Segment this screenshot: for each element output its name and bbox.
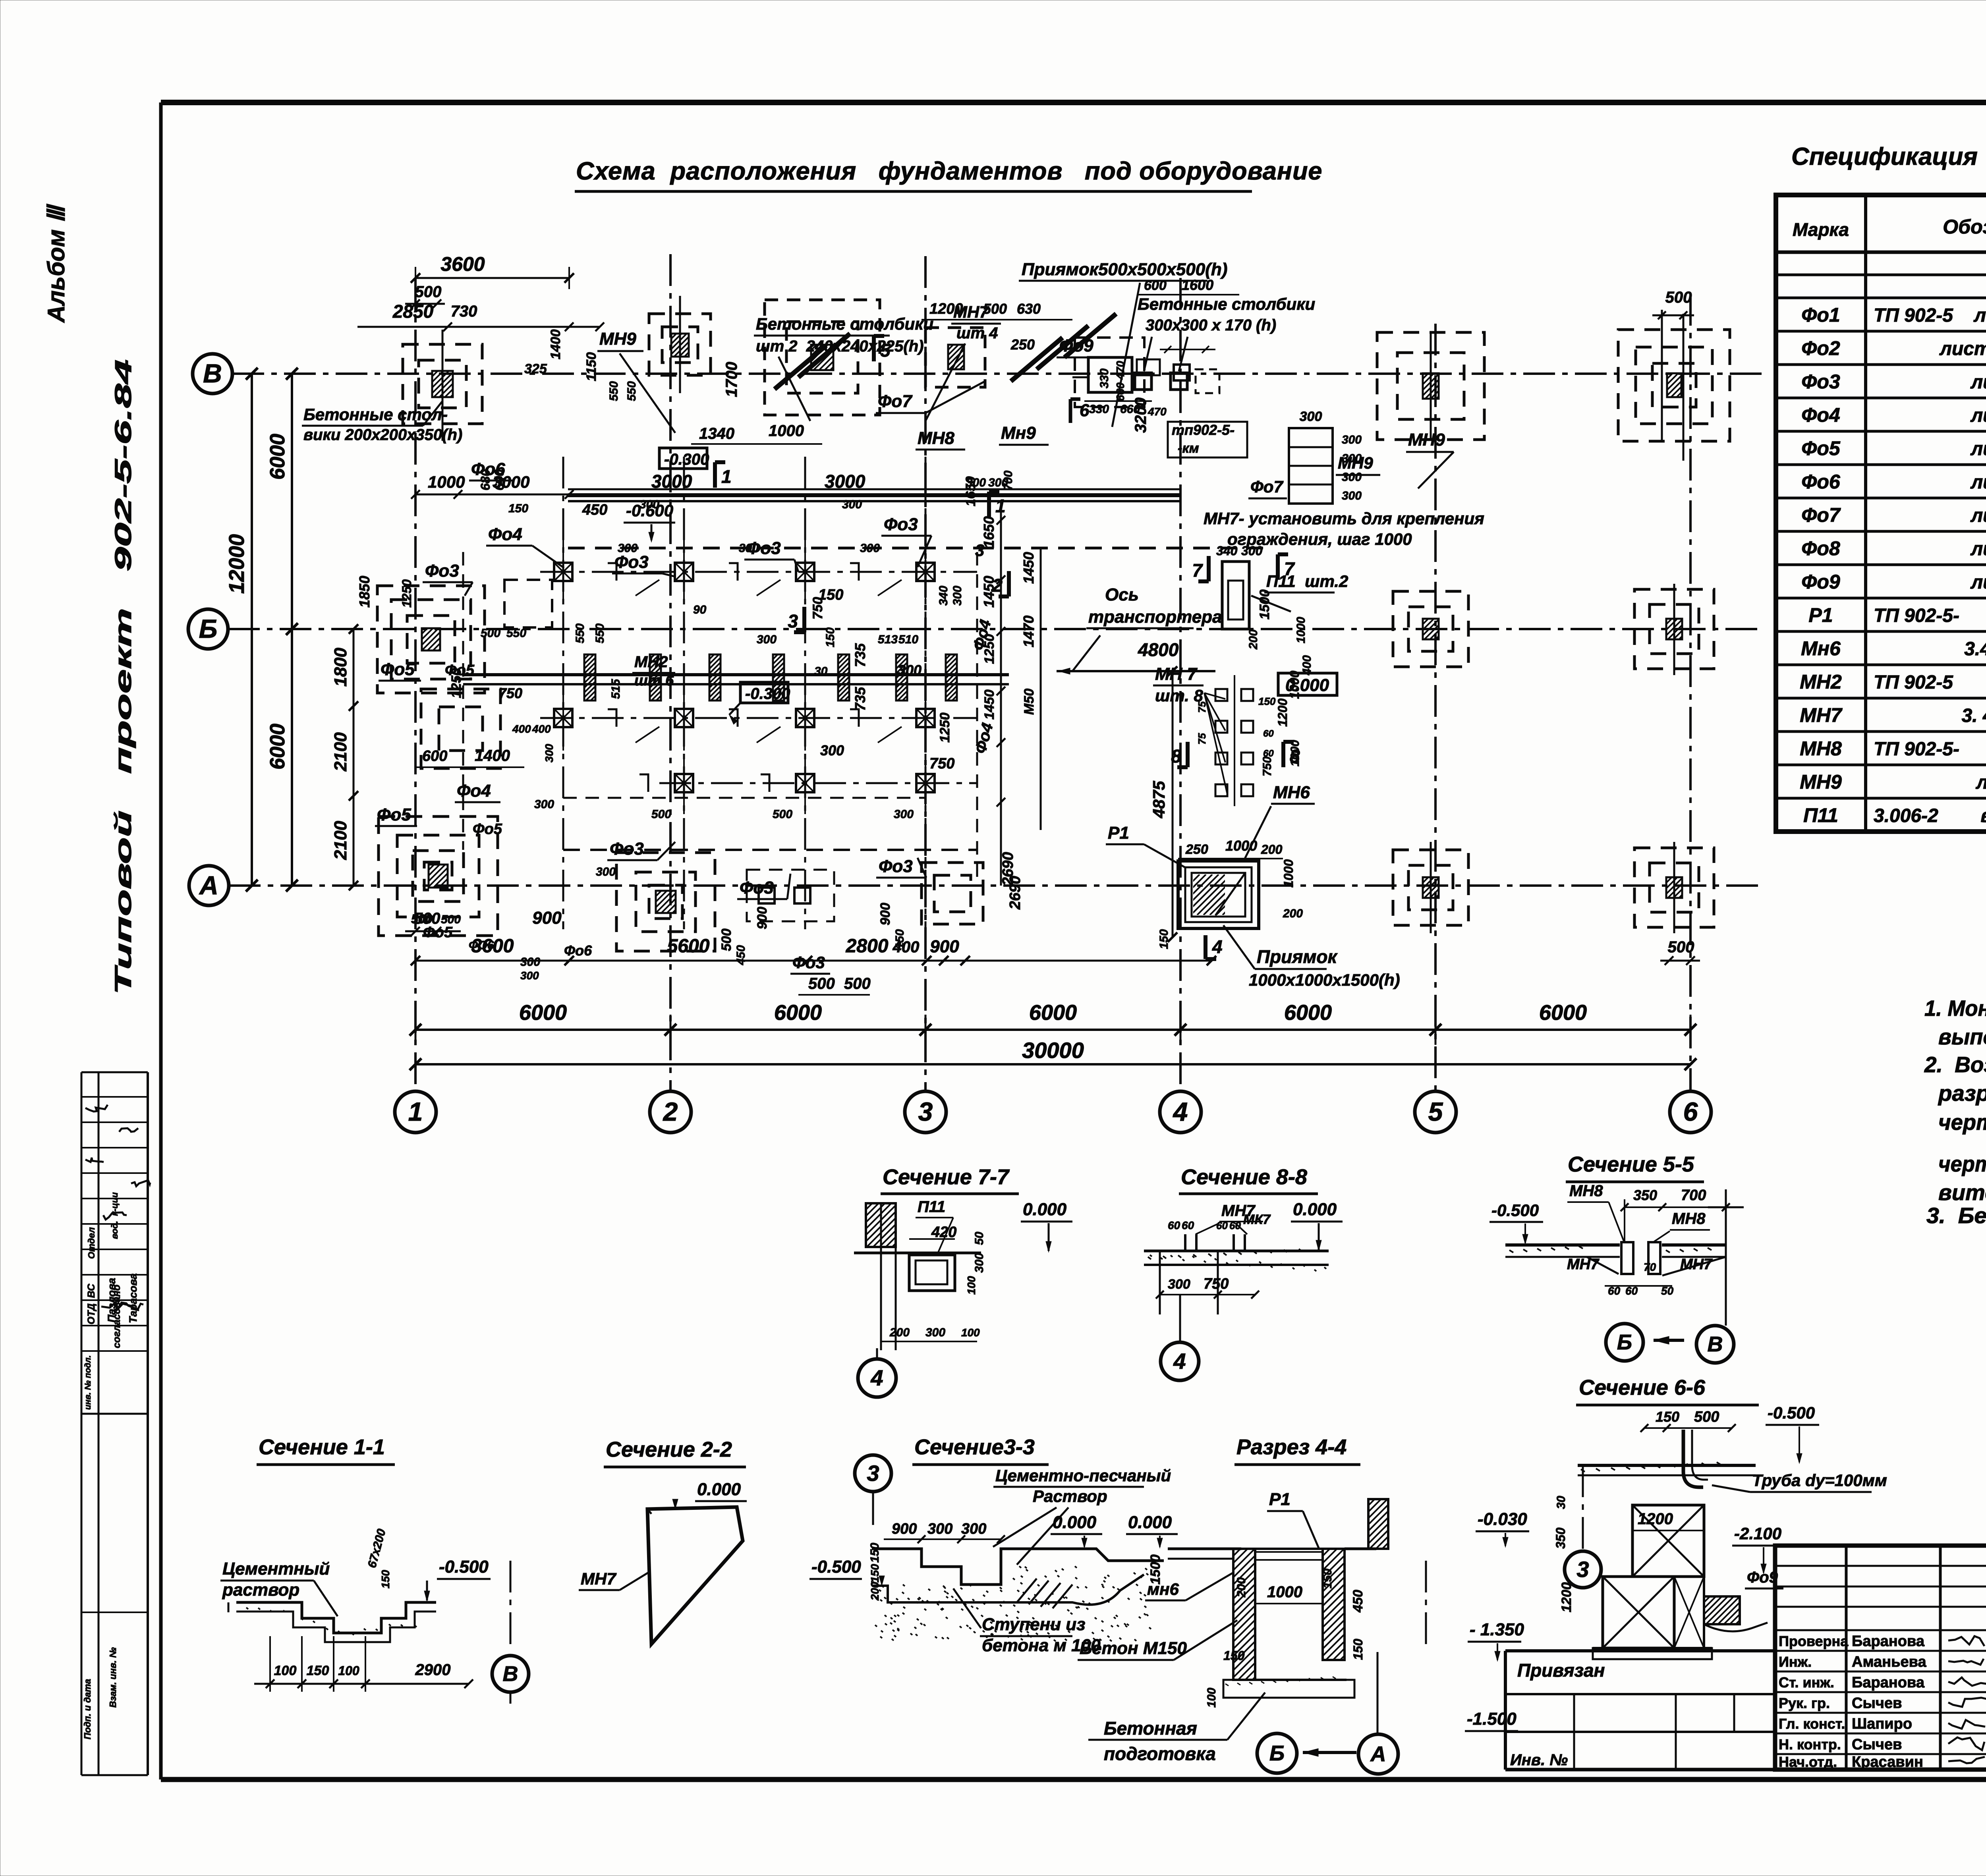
svg-text:1000: 1000 [428,473,465,491]
axis column 1 [414,278,417,1090]
svg-text:лист 13: лист 13 [1970,372,1986,393]
section 4-4 Б-А circles [1257,1733,1297,1773]
section 1-1 bottom dims [254,1683,469,1685]
svg-text:МН8: МН8 [1800,737,1842,760]
svg-text:Пазлова: Пазлова [106,1278,118,1322]
svg-text:Обозначение: Обозначение [1943,216,1986,238]
svg-text:1800: 1800 [331,648,350,687]
foundation (2,В) dashed [649,314,711,375]
svg-text:300: 300 [820,742,844,759]
boxed 0.000 [1278,673,1337,695]
svg-text:ТП 902-5- КЖН. Р1: ТП 902-5- КЖН. Р1 [1874,605,1986,626]
foundation (3,А) dashed [922,863,983,924]
svg-text:513: 513 [878,633,898,646]
svg-text:6: 6 [1080,401,1090,420]
sec mark 4 bottom [1204,935,1207,959]
svg-text:600: 600 [1144,278,1167,293]
top cluster dashed foundation A [765,300,880,415]
foundation (6,А) nested dashed [1634,848,1714,927]
svg-text:300: 300 [842,498,862,511]
svg-text:разрешается только после: разрешается только после сверки рабочих [1938,1081,1986,1106]
svg-text:МН 7: МН 7 [1155,664,1198,684]
svg-text:100: 100 [274,1663,297,1678]
svg-text:330: 330 [1089,403,1109,416]
section 7-7 circle 4 [858,1359,896,1397]
svg-text:30: 30 [1555,1496,1568,1509]
dimension 500 at (6,В) [1652,315,1694,317]
svg-text:150: 150 [869,1564,881,1583]
svg-text:470: 470 [1148,405,1167,418]
svg-text:8: 8 [1171,746,1181,766]
svg-text:300: 300 [860,542,880,555]
svg-text:300: 300 [973,1253,986,1273]
svg-text:МН2: МН2 [1800,671,1842,693]
section 6-6 circle 3 [1565,1551,1601,1588]
svg-text:МН8: МН8 [1569,1182,1603,1200]
svg-text:шт 2 240х240х225(h): шт 2 240х240х225(h) [756,338,924,355]
svg-text:Р1: Р1 [1269,1490,1291,1509]
dimension chain under plan [415,960,1211,962]
axis row А [229,884,1764,887]
svg-text:5: 5 [1428,1097,1443,1126]
svg-text:150: 150 [1351,1639,1365,1660]
svg-text:1450: 1450 [1020,552,1037,584]
svg-text:Марка: Марка [1793,219,1849,240]
svg-text:лист 13: лист 13 [1970,572,1986,593]
svg-text:МН7: МН7 [1800,704,1843,726]
svg-text:2100: 2100 [331,821,350,860]
section 5-5 Б-В circles [1606,1324,1643,1361]
svg-text:раствор: раствор [222,1580,299,1600]
svg-text:300: 300 [1241,544,1263,558]
inner row squares y1972 [675,774,693,792]
section 4-4 drawing [1168,1548,1241,1550]
svg-text:1: 1 [721,466,732,487]
svg-text:3.400-6/76: 3.400-6/76 [1964,639,1986,660]
svg-text:Сечение 2-2: Сечение 2-2 [606,1438,732,1461]
svg-text:лист 13: лист 13 [1970,438,1986,459]
svg-text:2. Возведение фундаментов: 2. Возведение фундаментов под оборудован… [1924,1052,1986,1077]
svg-text:лист 13: лист 13 [1970,472,1986,493]
svg-text:Рук. гр.: Рук. гр. [1779,1695,1830,1711]
svg-text:1250: 1250 [449,668,464,698]
svg-text:Сечение3-3: Сечение3-3 [914,1435,1035,1459]
axis circle Б [188,609,228,649]
page frame [161,100,1986,105]
svg-text:ТП 902-5 лист 10, 11, 12: ТП 902-5 лист 10, 11, 12 [1874,305,1986,326]
svg-text:200: 200 [869,1582,881,1601]
svg-text:3: 3 [1576,1557,1589,1582]
svg-text:вики 200х200х350(h): вики 200х200х350(h) [303,426,462,444]
slab edge double line [568,547,977,550]
svg-text:Бетонные столбики: Бетонные столбики [1138,295,1315,313]
svg-text:300х300 х 170 (h): 300х300 х 170 (h) [1146,317,1276,334]
svg-text:1000: 1000 [769,422,804,440]
axis circle В [193,354,232,394]
left stamp table [81,1072,83,1775]
svg-text:300: 300 [951,586,964,606]
svg-text:Приямок500х500х500(h): Приямок500х500х500(h) [1022,260,1227,279]
axis column 3 [924,256,927,1090]
axis circle 2 [650,1091,691,1133]
svg-text:1000: 1000 [1225,838,1257,854]
svg-text:550: 550 [593,623,607,643]
svg-text:3: 3 [867,1461,879,1486]
bottom small cluster squares [759,888,775,903]
svg-text:3000: 3000 [825,471,865,492]
svg-text:200: 200 [1261,842,1283,857]
svg-text:750: 750 [1204,1276,1229,1292]
svg-text:Фо3: Фо3 [425,561,459,581]
boxed -0.300 first [659,448,707,469]
svg-text:Ось: Ось [1105,585,1139,604]
svg-text:Красавин: Красавин [1852,1754,1923,1770]
svg-text:6000: 6000 [266,724,289,770]
svg-text:300: 300 [1342,471,1362,484]
svg-text:Фо5: Фо5 [473,821,502,838]
svg-text:выполнять в соответствии со: выполнять в соответствии со СН и П Ⅲ-15-… [1938,1024,1986,1049]
svg-text:2800: 2800 [846,936,889,957]
svg-text:0.000: 0.000 [1023,1200,1067,1219]
inner column lines [562,457,564,929]
svg-text:Фо9: Фо9 [1059,336,1093,355]
svg-text:150: 150 [379,1570,392,1588]
svg-text:Ст. инж.: Ст. инж. [1779,1674,1834,1691]
МН9 tube diagonals [775,345,826,389]
svg-text:60: 60 [1216,1220,1228,1231]
sec mark 5 top [872,336,876,361]
sec mark 1 bottom [987,492,991,517]
svg-text:325: 325 [524,361,547,376]
svg-text:Фо8: Фо8 [1801,537,1840,560]
sec mark 2 mid [1007,571,1011,596]
dimension 500 top [405,303,445,305]
boxed -0.300 second [740,682,788,703]
svg-text:6000: 6000 [1539,1001,1587,1025]
inner row squares y1440 [554,563,572,581]
svg-text:шт 4: шт 4 [956,324,998,342]
beam across top cluster [568,493,1182,497]
svg-text:П11: П11 [918,1198,945,1216]
foundation (1,А) nested dashed [397,835,479,917]
svg-text:750: 750 [1261,757,1274,776]
svg-text:300: 300 [1342,433,1362,446]
sec mark 1 top [713,462,717,488]
dimension line 6000 row [415,1029,1690,1031]
svg-text:Гл. конст.: Гл. конст. [1779,1716,1845,1732]
svg-text:1000: 1000 [1294,617,1308,643]
svg-text:250: 250 [1010,336,1035,353]
svg-text:Р1: Р1 [1108,823,1129,843]
svg-text:750: 750 [929,755,954,772]
foundation Фо9 rect [1088,357,1132,392]
svg-text:Б: Б [1269,1741,1285,1765]
svg-text:100: 100 [1205,1688,1218,1708]
svg-text:Н. контр.: Н. контр. [1779,1736,1841,1752]
МН2 conveyor channel [463,673,1009,676]
svg-text:600: 600 [422,748,447,764]
svg-text:2690: 2690 [1007,876,1024,910]
svg-text:0.000: 0.000 [1285,676,1329,695]
svg-text:Цементно-песчаный: Цементно-песчаный [995,1466,1171,1485]
dashed outline bottom of block [563,849,977,851]
dimension 12000 vertical [251,374,253,886]
svg-text:1250: 1250 [937,712,952,743]
svg-text:450: 450 [582,502,607,518]
svg-text:МН7- установить для крепления: МН7- установить для крепления [1204,509,1484,528]
svg-text:Приямок: Приямок [1257,946,1338,967]
svg-text:450: 450 [1350,1590,1366,1613]
title block verticals left part [1845,1546,1848,1770]
svg-text:-0.500: -0.500 [439,1557,489,1577]
svg-text:350: 350 [1553,1527,1568,1549]
svg-text:300: 300 [894,808,914,821]
svg-text:100: 100 [338,1664,359,1678]
svg-text:900: 900 [755,907,770,929]
svg-text:500: 500 [1665,289,1692,306]
svg-text:200: 200 [889,1326,910,1339]
svg-text:500: 500 [1668,938,1694,956]
svg-text:Фо5: Фо5 [1801,437,1841,459]
svg-text:Инж.: Инж. [1779,1654,1812,1670]
svg-text:300: 300 [1168,1277,1190,1292]
svg-text:550: 550 [625,381,638,401]
svg-text:300: 300 [520,955,540,969]
svg-text:900: 900 [930,937,959,956]
svg-text:МН9: МН9 [1800,771,1842,793]
svg-text:60: 60 [1263,728,1274,739]
svg-text:750: 750 [498,685,522,701]
svg-text:60: 60 [1168,1219,1180,1231]
svg-text:Альбом Ⅲ: Альбом Ⅲ [43,204,70,323]
svg-text:8: 8 [1290,746,1300,766]
svg-text:330: 330 [1098,369,1111,388]
svg-text:Аманьева: Аманьева [1852,1654,1926,1670]
svg-text:5600: 5600 [667,936,710,957]
svg-text:Фо5: Фо5 [381,660,415,679]
svg-text:В: В [503,1662,518,1686]
svg-text:515: 515 [609,679,622,699]
svg-text:Раствор: Раствор [1033,1487,1107,1505]
svg-text:МН9: МН9 [599,329,636,349]
svg-text:Мн6: Мн6 [1801,637,1841,660]
svg-text:1200: 1200 [1559,1582,1574,1612]
svg-text:4: 4 [1173,1097,1188,1126]
svg-text:Бетон М150: Бетон М150 [1080,1639,1187,1658]
svg-text:6: 6 [1683,1097,1698,1126]
svg-text:лист 10, 11, 12: лист 10, 11, 12 [1939,338,1986,359]
svg-text:Сычев: Сычев [1852,1695,1902,1712]
svg-text:4: 4 [1212,936,1223,957]
svg-text:200: 200 [1247,629,1260,650]
foundation (6,В) nested dashed [1618,330,1730,441]
svg-text:730: 730 [451,303,477,320]
axis row В [232,372,1764,375]
svg-text:500: 500 [481,627,500,640]
svg-text:лист 13: лист 13 [1970,505,1986,526]
foundation cluster left mid [421,689,500,768]
Фо7 stack right [1289,428,1333,504]
svg-text:700: 700 [1681,1187,1706,1204]
section 1-1 drawing [236,1602,436,1633]
svg-text:4800: 4800 [1138,639,1179,660]
section 3-3 drawing [872,1549,1164,1585]
svg-text:1000х1000х1500(h): 1000х1000х1500(h) [1249,971,1400,989]
svg-text:Сечение 5-5: Сечение 5-5 [1568,1152,1694,1176]
svg-text:150: 150 [1656,1409,1679,1425]
svg-text:300: 300 [596,865,616,878]
svg-text:1650: 1650 [981,516,997,548]
section 8-8 drawing [1144,1250,1329,1253]
svg-text:-0.030: -0.030 [1478,1509,1527,1529]
svg-text:400: 400 [532,723,551,735]
svg-text:150: 150 [307,1663,329,1678]
svg-text:Сечение 7-7: Сечение 7-7 [883,1165,1010,1189]
svg-text:3000: 3000 [651,471,692,492]
svg-text:350: 350 [1633,1187,1657,1203]
svg-text:Подп. и дата: Подп. и дата [82,1679,93,1739]
dimension line 30000 [415,1063,1690,1065]
axis column 6 [1689,294,1692,1090]
svg-text:100: 100 [965,1276,978,1295]
svg-text:1150: 1150 [584,352,599,381]
section 2-2 drawing [647,1507,743,1644]
svg-text:Схема расположения фундамен: Схема расположения фундаментов под обору… [576,157,1322,185]
dimension chain 1800-2100-2100 [353,629,355,886]
svg-text:чертежей фундаментов с устан: чертежей фундаментов с установочными [1938,1110,1986,1135]
axis circle 1 [395,1091,436,1133]
priamok П1 nested [1178,861,1259,928]
svg-text:П11 шт.2: П11 шт.2 [1266,572,1348,591]
core leader slashes [636,580,659,596]
svg-text:1400: 1400 [548,329,563,359]
svg-text:Фо6: Фо6 [471,459,505,479]
svg-text:550: 550 [506,627,526,640]
concrete posts 300x300 [1135,373,1151,390]
svg-text:300: 300 [927,1521,952,1537]
svg-text:700: 700 [1002,471,1015,490]
svg-text:инв. № подл.: инв. № подл. [83,1355,93,1410]
svg-text:1400: 1400 [475,747,510,764]
svg-text:550: 550 [574,623,587,643]
svg-text:МН9: МН9 [1408,430,1445,450]
svg-text:510: 510 [898,633,918,646]
section 7-7 drawing [866,1203,896,1247]
svg-text:лист 13: лист 13 [1970,405,1986,426]
section 1-1 axis B [510,1561,512,1648]
svg-text:400: 400 [512,723,531,735]
svg-text:90: 90 [693,603,707,616]
svg-text:735: 735 [852,687,868,711]
svg-text:1340: 1340 [699,425,734,442]
svg-text:Фо3: Фо3 [740,878,774,897]
svg-text:МН7: МН7 [1567,1256,1600,1273]
svg-text:Фо2: Фо2 [1801,337,1840,359]
sec marks 7 [1207,556,1211,581]
svg-text:300: 300 [543,744,555,762]
dimension 6000 verticals [291,374,293,886]
svg-text:Тарасова: Тарасова [127,1274,139,1324]
dimension 500 left under plan [405,930,461,932]
foundation (5,Б) nested dashed [1393,591,1468,667]
svg-text:-2.100: -2.100 [1734,1524,1781,1543]
axis column 5 [1434,324,1437,1090]
svg-text:Сычев: Сычев [1852,1736,1902,1753]
svg-text:МН7: МН7 [1680,1256,1713,1273]
svg-text:МН8: МН8 [918,428,954,448]
svg-text:300: 300 [966,476,986,489]
svg-text:лист 13: лист 13 [1970,538,1986,560]
svg-text:1500: 1500 [1257,589,1272,620]
conveyor axis line [1057,670,1215,672]
svg-text:1700: 1700 [723,362,740,397]
dimension 3600 top [415,277,569,279]
svg-text:1200: 1200 [1638,1510,1673,1528]
svg-text:150: 150 [868,1543,881,1563]
svg-text:транспортера: транспортера [1088,607,1222,627]
svg-text:900: 900 [892,1521,917,1537]
svg-text:Фо3: Фо3 [610,839,644,859]
svg-text:150: 150 [1258,695,1276,707]
svg-text:2100: 2100 [331,732,350,772]
svg-text:Фо7: Фо7 [1250,477,1283,496]
svg-text:Фо6: Фо6 [564,942,592,959]
svg-text:1: 1 [408,1097,423,1126]
svg-text:А: А [199,870,218,900]
svg-text:1500: 1500 [1148,1554,1163,1585]
svg-text:Шапиро: Шапиро [1852,1716,1912,1732]
svg-text:В: В [203,359,222,388]
svg-text:тп902-5-: тп902-5- [1172,422,1234,438]
dashed inner outline [563,797,925,799]
foundation (1,Б) nested dashed [377,586,485,693]
svg-text:3: 3 [918,1097,933,1126]
svg-text:200: 200 [1235,1577,1248,1598]
svg-text:150: 150 [1223,1648,1245,1663]
sec marks 8 [1186,742,1190,767]
svg-text:300: 300 [925,1326,945,1339]
svg-text:Сечение 6-6: Сечение 6-6 [1579,1376,1706,1399]
svg-text:200: 200 [1283,907,1303,920]
svg-text:Баранова: Баранова [1852,1674,1925,1691]
svg-text:750: 750 [810,597,825,620]
svg-text:500: 500 [1694,1409,1719,1425]
svg-text:Р1: Р1 [1808,604,1833,626]
svg-text:Проверна: Проверна [1779,1633,1849,1649]
svg-text:60: 60 [1182,1219,1194,1231]
svg-text:300: 300 [898,662,922,678]
svg-text:ТП 902-5 КЖН МН2: ТП 902-5 КЖН МН2 [1874,672,1986,693]
svg-text:лист 9: лист 9 [1976,772,1986,793]
svg-text:1450: 1450 [981,576,997,608]
svg-text:Фо4: Фо4 [1801,404,1840,426]
svg-text:6000: 6000 [519,1001,567,1025]
svg-text:630: 630 [1017,301,1041,317]
МН7 anchor squares [1215,689,1227,701]
svg-text:МН8: МН8 [1672,1210,1706,1228]
svg-text:ФО6: ФО6 [469,939,494,952]
svg-text:Фо5: Фо5 [377,805,411,824]
svg-text:Фо4: Фо4 [457,781,491,801]
foundation (1,В) nested dashed [403,344,482,424]
svg-text:МН2: МН2 [634,653,668,671]
svg-text:300: 300 [1300,409,1322,424]
svg-text:30: 30 [814,665,828,678]
svg-text:6000: 6000 [1029,1001,1077,1025]
svg-text:2850: 2850 [392,301,434,322]
svg-text:500: 500 [651,808,671,821]
svg-text:550: 550 [607,381,620,401]
